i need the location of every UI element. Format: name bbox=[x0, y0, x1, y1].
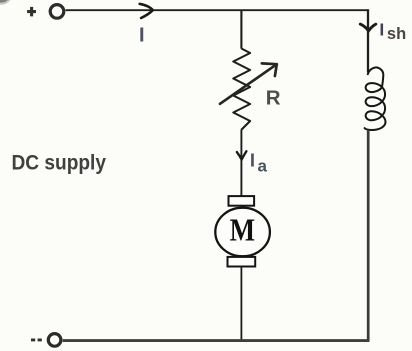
svg-text:I: I bbox=[250, 149, 255, 170]
wire: right branch lower segment bbox=[367, 130, 370, 342]
rheostat diagonal arrow bbox=[220, 63, 277, 103]
svg-text:DC supply: DC supply bbox=[12, 152, 107, 175]
motor M armature circle bbox=[215, 208, 270, 257]
svg-text:M: M bbox=[230, 212, 256, 247]
minus terminal polarity mark bbox=[31, 338, 42, 341]
positive supply terminal bbox=[50, 5, 64, 19]
arrow: current I on top wire bbox=[140, 4, 153, 18]
negative supply terminal bbox=[48, 334, 61, 347]
wire: bottom horizontal bbox=[63, 339, 370, 342]
wire: middle branch between rheostat and motor bbox=[240, 130, 242, 197]
svg-text:R: R bbox=[266, 87, 281, 110]
wire: middle branch upper segment bbox=[240, 10, 242, 49]
wire: middle branch lower segment bbox=[240, 267, 242, 342]
svg-text:sh: sh bbox=[387, 25, 406, 43]
arrow: armature current Ia bbox=[237, 151, 247, 159]
motor brush top bbox=[229, 196, 255, 206]
wire: top horizontal bbox=[66, 9, 369, 11]
resistor R (rheostat zigzag) bbox=[233, 49, 250, 130]
svg-text:I: I bbox=[379, 20, 384, 40]
inductor: shunt field winding bbox=[365, 67, 386, 130]
plus terminal polarity mark bbox=[27, 7, 36, 17]
svg-text:I: I bbox=[139, 24, 145, 46]
corner crop artifact bbox=[0, 0, 9, 3]
wire: right branch upper segment bbox=[367, 9, 369, 72]
motor brush bottom bbox=[228, 257, 256, 267]
svg-text:a: a bbox=[258, 157, 268, 176]
arrow: shunt current Ish bbox=[360, 24, 376, 31]
